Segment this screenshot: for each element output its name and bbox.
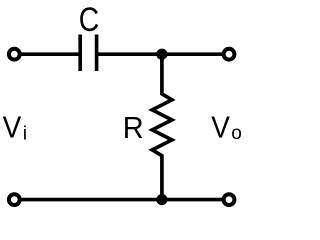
svg-text:i: i — [23, 123, 27, 145]
svg-text:V: V — [211, 110, 230, 145]
svg-text:V: V — [3, 110, 22, 145]
svg-text:R: R — [123, 111, 144, 145]
svg-text:C: C — [79, 0, 99, 38]
svg-text:o: o — [231, 123, 242, 144]
